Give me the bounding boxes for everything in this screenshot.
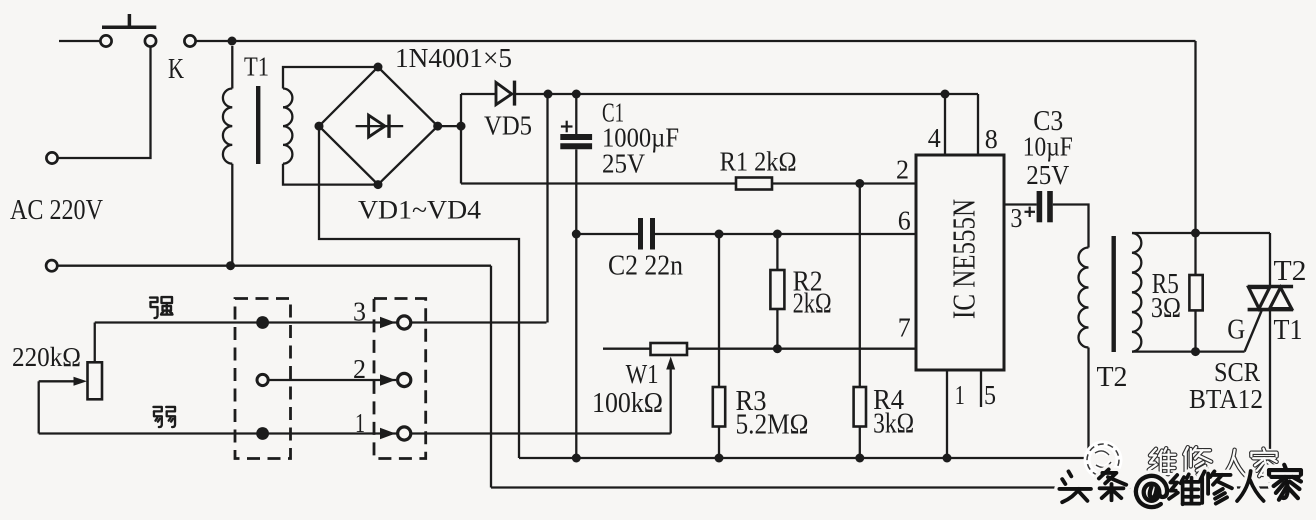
node junction R3 top <box>715 230 724 239</box>
wire T1 secondary top to bridge top vertex <box>283 67 378 89</box>
node junction IC pin1 on ground rail <box>943 454 952 463</box>
wire right-edge vertical down to triac branch node <box>1194 41 1196 233</box>
switch K pushbutton actuator bar <box>102 25 156 29</box>
svg-text:3: 3 <box>353 297 366 327</box>
wire strong row to +V riser <box>95 321 547 323</box>
transformer T1 primary winding <box>231 46 233 89</box>
wire R3 branch vertical <box>718 234 720 387</box>
wire VD5 cathode to +V rail, rail to IC pin8 corner <box>516 93 978 95</box>
wire bridge negative: left vertex down, right, down to ground rail <box>319 126 519 458</box>
wire IC pin 1 to ground rail <box>946 370 948 458</box>
diode VD5 <box>496 83 512 105</box>
svg-text:10µF: 10µF <box>1023 132 1073 162</box>
transformer T1 core <box>256 86 260 164</box>
svg-text:2: 2 <box>353 354 366 384</box>
arrow into contact 2 <box>380 374 396 386</box>
svg-text:220kΩ: 220kΩ <box>12 342 81 372</box>
node junction IC pin4 on +V rail <box>941 90 950 99</box>
wire strong-speed vertical x547 <box>546 94 548 323</box>
potentiometer 220k body <box>94 323 96 363</box>
C1 plus polarity mark <box>561 125 573 127</box>
transformer T1 secondary winding <box>283 89 292 164</box>
svg-text:6: 6 <box>898 206 911 236</box>
node junction strong-speed feed on +V rail <box>544 90 553 99</box>
arrow into contact 3 <box>380 317 396 329</box>
svg-text:25V: 25V <box>1026 160 1069 190</box>
transformer T2 core <box>1111 236 1115 352</box>
svg-text:AC 220V: AC 220V <box>10 194 103 226</box>
op-amp U1 IC NE555N body <box>916 155 1004 370</box>
svg-text:25V: 25V <box>602 148 645 178</box>
arrow into contact 1 <box>380 428 396 440</box>
resistor R5 <box>1194 233 1196 275</box>
svg-text:5.2MΩ: 5.2MΩ <box>736 410 809 441</box>
wire bridge positive: right vertex to VD5 branch node <box>438 125 461 127</box>
resistor R3 <box>713 387 725 427</box>
wire ground rail <box>519 457 1088 459</box>
bridge inner diode symbol <box>356 125 404 127</box>
svg-text:2: 2 <box>896 154 909 184</box>
svg-text:1N4001×5: 1N4001×5 <box>395 43 512 73</box>
wire top supply rail from K to right edge corner <box>195 40 1196 42</box>
terminal circle after switch K <box>184 35 195 46</box>
svg-text:SCR: SCR <box>1214 357 1260 387</box>
wire AC neutral down at x491 to bottom return rail <box>490 266 492 488</box>
svg-text:1: 1 <box>955 380 965 410</box>
wire rail to IC pin 2 with R1 <box>461 182 736 184</box>
wire W1 right to IC pin 7 <box>687 348 916 350</box>
watermark outline logo circle <box>1087 444 1119 476</box>
wire T1 secondary bottom to bridge bottom vertex <box>283 164 378 185</box>
svg-text:3Ω: 3Ω <box>1151 293 1181 324</box>
contact 2 left terminal <box>257 374 268 385</box>
wire AC neutral horizontal run <box>57 265 491 267</box>
wire T2 primary bottom to ground rail <box>1087 348 1089 459</box>
svg-text:2kΩ: 2kΩ <box>793 289 832 320</box>
node junction secondary bottom / R5 / gate <box>1191 347 1200 356</box>
node contact 1 selected <box>256 427 269 440</box>
svg-text:R1 2kΩ: R1 2kΩ <box>720 147 797 177</box>
switch gang dashed box right <box>374 299 426 459</box>
AC 220V neutral terminal <box>46 260 57 271</box>
node junction rail6 at C1 branch <box>572 230 581 239</box>
watermark solid text toutiao weixiurenjia <box>1059 471 1091 502</box>
transformer T2 primary winding <box>1079 248 1089 348</box>
svg-text:3kΩ: 3kΩ <box>873 409 914 440</box>
wire C2 to IC pin 6 <box>653 233 917 235</box>
svg-text:5: 5 <box>984 380 996 410</box>
wire rail pin7 left segment <box>603 348 651 350</box>
wire triac gate lead <box>1245 309 1263 352</box>
potentiometer W1 body <box>651 343 688 355</box>
svg-text:G: G <box>1227 314 1245 346</box>
wire VD5 branch vertical <box>460 94 462 184</box>
node junction top rail / T1 primary <box>228 37 237 46</box>
node bridge bottom vertex <box>374 180 383 189</box>
switch gang dashed box left <box>235 299 291 459</box>
wire weak row <box>39 432 671 434</box>
svg-text:4: 4 <box>928 123 941 153</box>
contact 3 terminal <box>398 316 411 329</box>
transformer T2 secondary winding <box>1132 233 1141 352</box>
contact 2 terminal <box>398 373 411 386</box>
node junction R3 bottom on ground rail <box>715 454 724 463</box>
wire IC pin 3 output <box>1004 203 1037 205</box>
wire to switch K left terminal <box>59 40 101 42</box>
switch K left contact terminal <box>100 35 111 46</box>
svg-text:VD1~VD4: VD1~VD4 <box>358 196 481 225</box>
svg-text:3: 3 <box>1010 203 1022 233</box>
node junction R2 top <box>773 230 782 239</box>
svg-text:8: 8 <box>985 124 998 154</box>
node junction R4 bottom on ground rail <box>855 454 864 463</box>
label weak (ruo) <box>153 407 175 427</box>
wire R4 branch vertical down to R4 <box>859 184 861 388</box>
watermark outline text weixiurenjia <box>1149 448 1176 474</box>
svg-text:IC NE555N: IC NE555N <box>946 199 982 319</box>
svg-text:K: K <box>168 53 184 85</box>
bridge rectifier VD1-VD4 diamond outline <box>319 67 438 185</box>
node junction C1 positive on +V rail <box>572 90 581 99</box>
resistor R1 <box>736 178 772 190</box>
svg-text:100kΩ: 100kΩ <box>592 388 663 419</box>
resistor R2 <box>776 234 778 270</box>
node bridge left vertex (negative) <box>315 122 324 131</box>
node contact 3 selected <box>256 316 269 329</box>
svg-text:BTA12: BTA12 <box>1189 384 1263 414</box>
svg-text:T2: T2 <box>1274 255 1307 287</box>
node junction R2 bottom on pin7 rail <box>773 344 782 353</box>
potentiometer 220k wiper arrow <box>39 380 75 382</box>
svg-text:W1: W1 <box>626 359 659 389</box>
svg-text:1: 1 <box>355 408 365 438</box>
contact 1 terminal <box>398 427 411 440</box>
node bridge top vertex <box>374 63 383 72</box>
label strong (qiang) <box>150 297 173 318</box>
wire IC pin 8 <box>977 94 979 155</box>
wire VD5 anode feed <box>461 93 496 95</box>
node junction secondary top / R5 / mains <box>1191 229 1200 238</box>
node bridge right vertex (positive) <box>433 122 442 131</box>
switch K right contact terminal <box>145 35 156 46</box>
node junction VD5 branch <box>457 122 466 131</box>
AC 220V line terminal <box>46 152 57 163</box>
transistor SCR triac BTA12 symbol <box>1248 285 1294 289</box>
capacitor C2 <box>638 218 643 250</box>
wire T2 secondary top to triac node <box>1132 232 1270 234</box>
wire triac T2 terminal drop <box>1269 233 1271 288</box>
C3 plus polarity mark <box>1025 211 1036 213</box>
svg-text:VD5: VD5 <box>484 111 532 141</box>
wire T2 secondary bottom to gate node <box>1132 350 1245 352</box>
svg-text:T1: T1 <box>1274 314 1303 346</box>
wire C3 to T2 primary top <box>1053 205 1089 248</box>
wire T1 primary bottom to AC neutral junction <box>231 164 233 266</box>
wire from switch K right terminal down to AC line terminal <box>57 46 151 158</box>
node junction AC neutral / T1 primary bottom <box>226 261 235 270</box>
capacitor C3 <box>1037 191 1043 222</box>
svg-text:7: 7 <box>898 313 911 343</box>
wire bottom return rail to triac T1 <box>491 311 1270 488</box>
capacitor C1 (polarized) <box>575 94 577 134</box>
resistor R4 <box>854 387 866 427</box>
svg-text:T1: T1 <box>244 51 269 81</box>
wire IC pin 4 <box>944 94 946 155</box>
svg-text:T2: T2 <box>1097 362 1128 393</box>
svg-text:C2 22n: C2 22n <box>608 251 683 282</box>
potentiometer W1 wiper arrow <box>666 357 675 370</box>
node junction R4 top on pin2 rail <box>855 179 864 188</box>
wire IC pin 5 stub <box>980 370 982 407</box>
wire C1 node to C2 <box>576 233 640 235</box>
node junction C1 negative on ground rail <box>572 454 581 463</box>
wire row 2 <box>268 379 396 381</box>
